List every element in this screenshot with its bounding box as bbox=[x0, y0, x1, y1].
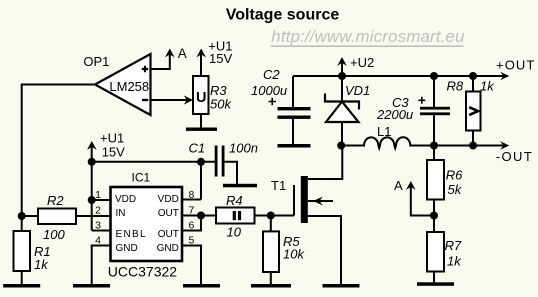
diode VD1 bbox=[325, 76, 370, 146]
svg-text:15V: 15V bbox=[209, 51, 232, 66]
svg-text:C2: C2 bbox=[263, 67, 280, 82]
svg-text:4: 4 bbox=[95, 235, 101, 247]
ground below T1 source bbox=[323, 284, 360, 288]
svg-text:2: 2 bbox=[95, 205, 101, 217]
svg-text:ENBL: ENBL bbox=[116, 229, 147, 240]
junction dot feedback/R1/R2 bbox=[18, 212, 26, 220]
ground below R3 bbox=[186, 128, 217, 131]
svg-text:U: U bbox=[196, 90, 206, 106]
pin 7 stub bbox=[182, 215, 201, 217]
junction dot VD1/L1/T1 drain bbox=[337, 142, 345, 150]
transistor T1 bbox=[271, 146, 342, 285]
ground below R7 bbox=[417, 282, 454, 286]
svg-text:VDD: VDD bbox=[115, 194, 136, 205]
ground below C2 bbox=[278, 144, 311, 148]
power +U1 15V flag at IC1 bbox=[87, 131, 125, 231]
pin 3 stub bbox=[92, 230, 111, 232]
op-amp OP1 LM258 bbox=[83, 54, 150, 115]
wire op-amp plus input bbox=[151, 53, 170, 69]
svg-text:1000u: 1000u bbox=[251, 83, 287, 98]
junction dot R4/R5/gate bbox=[267, 212, 275, 220]
svg-text:+OUT: +OUT bbox=[496, 58, 535, 73]
power +U2 flag bbox=[337, 55, 374, 76]
wire gate from R4 node bbox=[271, 215, 294, 217]
pin 5 stub bbox=[182, 246, 201, 285]
resistor R8 1k bbox=[447, 76, 496, 146]
pin 8 stub bbox=[182, 199, 201, 201]
svg-text:Voltage source: Voltage source bbox=[226, 6, 340, 23]
node A flag near R6 bbox=[394, 178, 434, 215]
resistor R2 100 bbox=[22, 193, 111, 242]
capacitor C2 1000u bbox=[251, 67, 311, 144]
ground below pin 5 bbox=[183, 284, 220, 288]
ground below pin 4 bbox=[73, 284, 110, 288]
svg-text:A: A bbox=[394, 178, 403, 193]
svg-text:IN: IN bbox=[116, 208, 126, 219]
pin 4 stub bbox=[92, 246, 111, 285]
svg-text:1: 1 bbox=[95, 189, 101, 201]
junction dot R8 bottom bbox=[469, 142, 477, 150]
svg-text:R4: R4 bbox=[226, 193, 243, 208]
watermark microsmart.eu bbox=[271, 27, 465, 46]
junction dot pins 6-7 output bbox=[197, 212, 205, 220]
svg-text:R7: R7 bbox=[445, 238, 462, 253]
wire R3 bottom to ground bbox=[200, 114, 202, 128]
junction dot C1 branch to pin 8 bbox=[197, 158, 205, 166]
junction dot R8 top bbox=[469, 72, 477, 80]
svg-text:50k: 50k bbox=[210, 96, 232, 111]
svg-text:7: 7 bbox=[189, 205, 195, 217]
svg-text:GND: GND bbox=[116, 243, 138, 254]
junction dot +U1 to C1 rail bbox=[88, 158, 96, 166]
resistor R4 10 bbox=[201, 193, 271, 240]
svg-text:LM258: LM258 bbox=[109, 79, 149, 94]
junction dot C3 top bbox=[430, 72, 438, 80]
svg-text:1k: 1k bbox=[34, 257, 49, 272]
svg-text:8: 8 bbox=[189, 189, 195, 201]
svg-text:A: A bbox=[178, 46, 187, 61]
pin 6 stub bbox=[182, 216, 201, 231]
output +OUT flag bbox=[496, 58, 535, 81]
svg-text:GND: GND bbox=[157, 243, 179, 254]
svg-text:OUT: OUT bbox=[158, 229, 179, 240]
svg-text:R2: R2 bbox=[47, 193, 64, 208]
power +U1 15V flag at R3 bbox=[196, 39, 232, 76]
junction dot R6/R7/A bbox=[430, 212, 438, 220]
svg-text:T1: T1 bbox=[271, 178, 286, 193]
inductor L1 bbox=[341, 124, 504, 148]
svg-text:OP1: OP1 bbox=[83, 54, 109, 69]
svg-text:R8: R8 bbox=[447, 78, 464, 93]
svg-text:+U2: +U2 bbox=[350, 55, 374, 70]
wire op-amp minus input to R3 wiper bbox=[151, 99, 188, 101]
wire op-amp output feedback bbox=[22, 85, 95, 217]
svg-text:10k: 10k bbox=[283, 246, 305, 261]
resistor R6 5k bbox=[427, 146, 463, 216]
svg-text:IC1: IC1 bbox=[132, 170, 151, 184]
svg-text:6: 6 bbox=[189, 220, 195, 232]
svg-text:1k: 1k bbox=[480, 78, 495, 93]
capacitor C1 100n bbox=[189, 141, 258, 185]
resistor R1 1k bbox=[14, 216, 51, 284]
wire VDD rail to C1 bbox=[92, 161, 216, 163]
svg-text:http://www.microsmart.eu: http://www.microsmart.eu bbox=[271, 27, 465, 46]
svg-text:5k: 5k bbox=[448, 182, 463, 197]
svg-text:VDD: VDD bbox=[158, 194, 179, 205]
IC1 UCC37322 bbox=[108, 170, 182, 279]
capacitor C3 2200u bbox=[376, 76, 450, 146]
junction dot +U1 pin1 bbox=[88, 196, 96, 204]
pin 1 stub bbox=[92, 199, 111, 201]
svg-text:1k: 1k bbox=[447, 253, 462, 268]
svg-text:C1: C1 bbox=[189, 141, 206, 156]
svg-text:10: 10 bbox=[227, 225, 242, 240]
ground below R5 bbox=[251, 284, 291, 288]
svg-text:100: 100 bbox=[43, 227, 65, 242]
potentiometer R3 50k bbox=[193, 76, 232, 114]
svg-text:2200u: 2200u bbox=[376, 107, 413, 122]
resistor R5 10k bbox=[263, 216, 305, 285]
svg-text:UCC37322: UCC37322 bbox=[108, 264, 177, 280]
ground below R1 bbox=[3, 284, 40, 288]
output -OUT flag bbox=[496, 141, 533, 164]
svg-text:-OUT: -OUT bbox=[496, 149, 533, 164]
junction dot +U2/VD1 bbox=[338, 72, 346, 80]
svg-text:5: 5 bbox=[189, 235, 195, 247]
node A flag near op-amp bbox=[165, 49, 175, 58]
svg-text:+U1: +U1 bbox=[100, 131, 124, 146]
svg-text:VD1: VD1 bbox=[345, 83, 370, 98]
svg-text:3: 3 bbox=[95, 220, 101, 232]
junction dot C3 bottom bbox=[430, 142, 438, 150]
ground below C1 bbox=[223, 184, 257, 188]
svg-text:R6: R6 bbox=[446, 167, 463, 182]
top +U2 rail bbox=[293, 75, 504, 77]
svg-text:OUT: OUT bbox=[158, 208, 179, 219]
svg-text:15V: 15V bbox=[102, 145, 125, 160]
wire pin 8 riser bbox=[200, 162, 202, 200]
resistor R7 1k bbox=[427, 216, 462, 283]
svg-text:100n: 100n bbox=[229, 141, 258, 156]
